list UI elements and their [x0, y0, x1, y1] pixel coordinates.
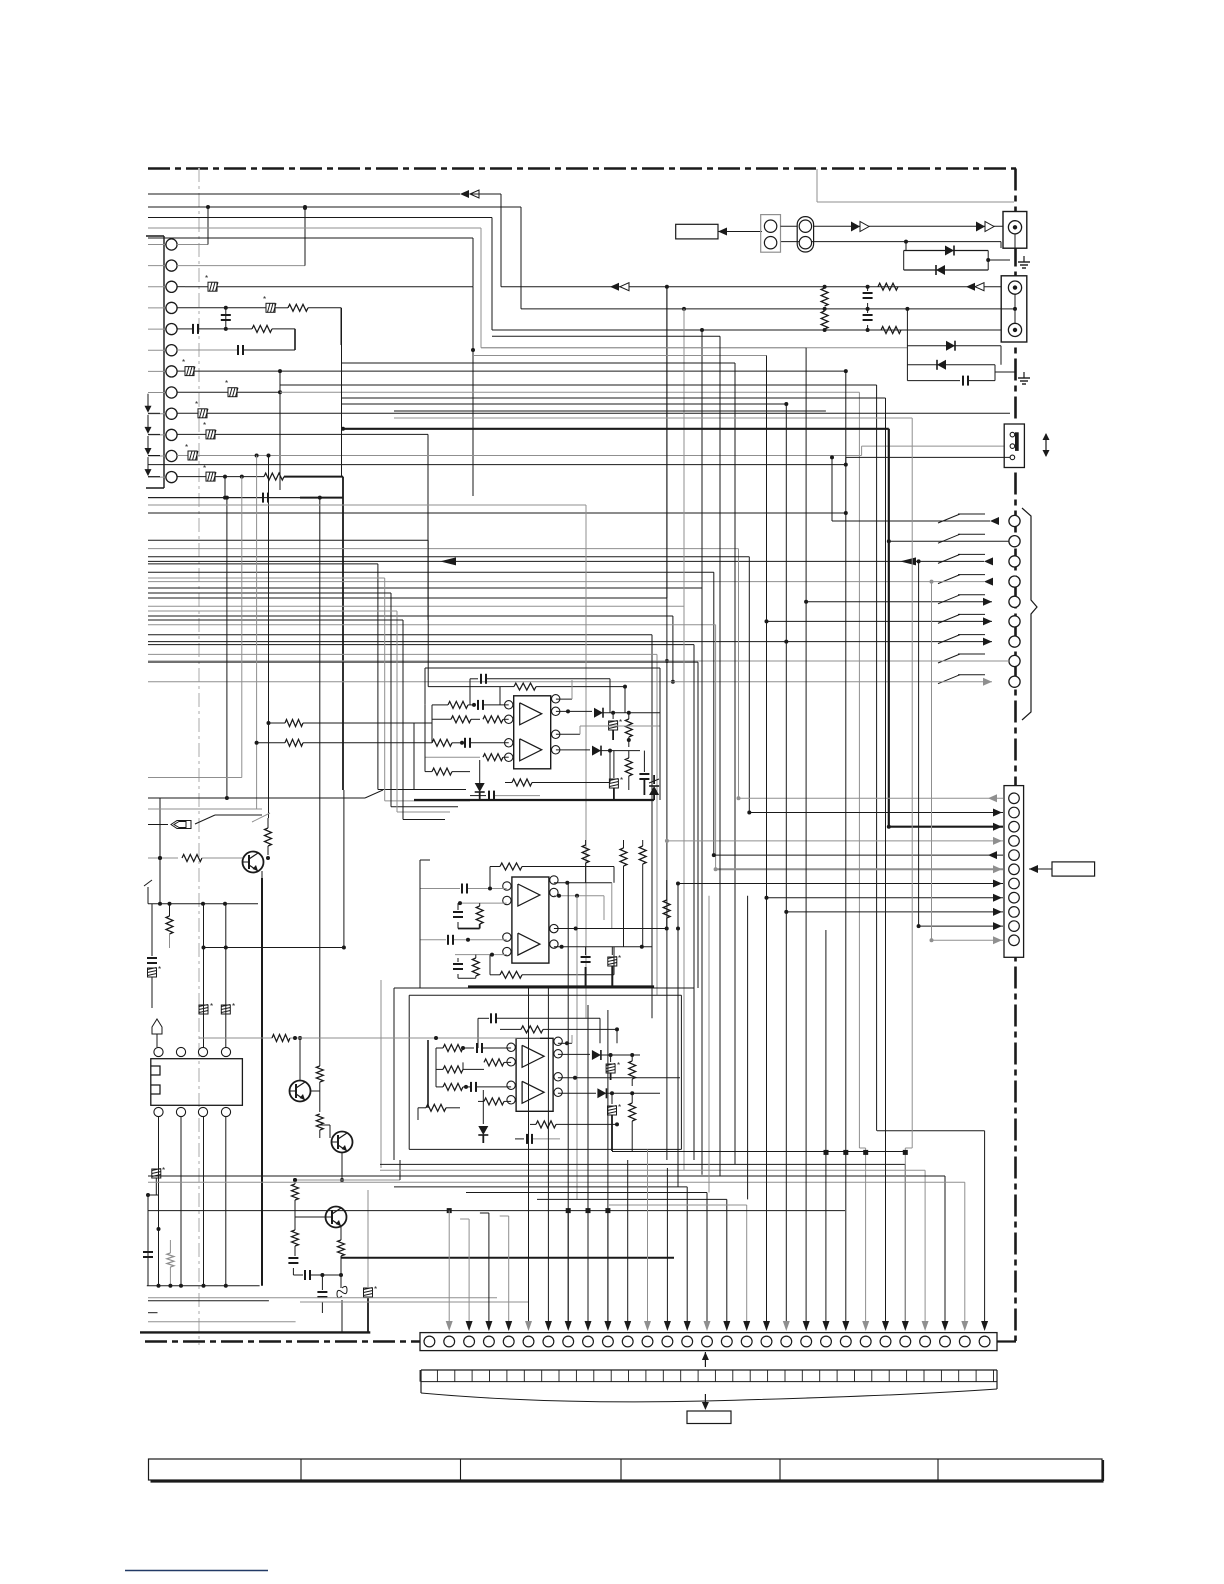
diode D out2 — [556, 746, 640, 756]
connector CN101 (12-pin) — [145, 236, 178, 488]
ferrite FB2 + resistor R + wire — [177, 295, 341, 345]
wire L6 — [280, 385, 877, 1131]
resistor R u2r2 — [620, 840, 627, 947]
resistor R q4b1 — [292, 1178, 299, 1252]
wire block1 bottom bus — [414, 799, 654, 801]
connector sym 2p stadium — [797, 217, 813, 252]
connector sym 2p box — [761, 215, 781, 253]
cap hatched lv — [147, 904, 161, 1008]
connector CN right (11-pin) — [1004, 786, 1024, 958]
wire bottom bus4 — [148, 1297, 497, 1299]
resistor R q1c — [265, 818, 272, 860]
wire sw p7 — [148, 638, 992, 646]
wire band3 l4 — [148, 1182, 965, 1327]
wire bus b0 — [148, 549, 739, 799]
wire sw p9 — [148, 678, 992, 686]
arrow up center — [702, 1352, 709, 1367]
wire block1 left rails — [414, 705, 432, 790]
wire u3 loop2 — [394, 988, 694, 1160]
svg-text:*: * — [203, 421, 206, 430]
resistor R in3 — [425, 738, 509, 748]
wire band3 l1 — [380, 1164, 905, 1327]
wire u2 out2 — [554, 894, 604, 1200]
wire steps s3 — [537, 1199, 727, 1327]
wire q2col — [298, 1036, 302, 1081]
resistor R u2r3 — [639, 840, 646, 947]
wire op1 feed r3 — [148, 578, 470, 801]
svg-text:*: * — [210, 1002, 213, 1011]
wire bus b4 — [148, 287, 667, 598]
wire staircase w3 — [148, 218, 1001, 331]
wire sw p4 — [148, 578, 993, 586]
wire L3 — [473, 355, 767, 357]
capacitor C o1 — [639, 751, 649, 795]
label box bottom — [687, 1411, 731, 1424]
wire steps s1 — [394, 1187, 687, 1327]
svg-text:*: * — [620, 776, 623, 785]
wire bus b513 — [148, 511, 848, 515]
svg-text:*: * — [162, 1166, 165, 1175]
cap q4c — [317, 1273, 327, 1313]
wire u3 loop1 — [409, 995, 681, 1149]
resistor R u3o2 — [629, 1093, 636, 1151]
wire jack link — [781, 242, 1002, 248]
wire longv C — [700, 328, 704, 1175]
resistor R fb2 bot — [490, 947, 614, 979]
connector arrow sym — [148, 815, 262, 829]
resistor R series2 — [881, 327, 901, 334]
coil q4 — [337, 1257, 347, 1332]
wire longv e2 — [708, 896, 710, 1193]
svg-text:*: * — [182, 358, 185, 367]
resistor R o1 — [625, 713, 632, 747]
capacitor C fb1 — [470, 674, 610, 713]
ferrite FB1 + wire — [177, 274, 473, 496]
wire longv e1 — [676, 884, 680, 1187]
capacitor C fb3 — [478, 1013, 600, 1048]
wire longv p17 — [766, 356, 768, 1328]
op-amp U2 — [503, 876, 558, 963]
resistor R bias1 — [425, 768, 470, 775]
junction — [303, 205, 307, 209]
diode pair loop upper — [904, 240, 1010, 275]
svg-text:*: * — [374, 1285, 377, 1294]
resistor R lw — [167, 1240, 174, 1288]
wire bus extra1 — [148, 497, 343, 499]
wire bus b6 — [148, 616, 673, 682]
resistor R fb3 — [500, 1026, 619, 1043]
wire steps s4 — [609, 1205, 747, 1327]
IC U4 body — [151, 1059, 243, 1106]
switch SW1 — [1004, 424, 1024, 468]
RCA jack J1 — [1003, 212, 1027, 249]
svg-text:*: * — [618, 954, 621, 963]
wires into right connector — [665, 559, 1003, 944]
wire u3 loop3 — [380, 980, 382, 1168]
wire bottom bus3 — [148, 1300, 269, 1302]
capacitor C + resistor + wire — [177, 324, 295, 345]
wire op1 feed r6 — [148, 620, 445, 820]
ferrite lw — [152, 1166, 165, 1195]
wire u2 out1 — [554, 881, 612, 929]
wire bus extra2 — [148, 505, 586, 1018]
cap q4 — [288, 1246, 298, 1275]
wire left rail h — [148, 902, 258, 906]
wire bus b2 — [148, 572, 714, 855]
capacitor C u3b — [515, 1134, 560, 1144]
wire u3 out2 — [558, 1076, 680, 1080]
tap squares — [447, 1208, 611, 1327]
capacitor C + wire — [221, 308, 231, 331]
wire u3 left rails — [418, 1040, 436, 1120]
wire u2 loop — [420, 860, 430, 988]
capacitor C pair — [863, 285, 873, 332]
tap squares right — [824, 1150, 908, 1155]
ferrite FB3 + wire — [177, 358, 848, 490]
ferrite ic1 — [199, 1002, 213, 1014]
wire u2 in2 — [458, 901, 507, 905]
transistor Q4 — [326, 1207, 347, 1228]
wire op1 in2 feed — [267, 720, 415, 727]
switch contact column pins — [938, 514, 1020, 687]
brace — [1022, 508, 1037, 720]
wire sw p1 — [830, 455, 999, 525]
wire sw p3 — [148, 557, 993, 565]
svg-text:*: * — [205, 274, 208, 283]
wire band3 top — [877, 1131, 985, 1327]
diode D out1 — [556, 708, 660, 718]
wire longv v885 — [885, 398, 887, 1327]
wire L10 — [394, 410, 826, 412]
wire u3 out1 — [558, 1035, 572, 1045]
IC U4 pins bottom — [154, 1107, 231, 1116]
resistor R u2r4 — [663, 880, 670, 929]
wire bus b8 — [148, 635, 652, 1019]
svg-text:*: * — [158, 965, 161, 974]
resistor R fb low1 — [505, 751, 610, 786]
wire longv A — [665, 285, 669, 1160]
wire 160v — [158, 798, 162, 906]
ribbon cable — [420, 1370, 997, 1402]
wire bottom bus1 — [341, 1257, 674, 1259]
wire op1 feed r5 — [148, 611, 450, 812]
wire vdrop e — [318, 496, 322, 1060]
diode D u3o2 — [558, 1088, 660, 1098]
svg-text:*: * — [195, 400, 198, 409]
wire u2 in4 — [455, 953, 507, 957]
board boundary dash-dot right — [1014, 169, 1017, 1342]
ferrite cap FCu31 — [606, 1053, 634, 1080]
wire sw p2 — [887, 539, 1009, 543]
wire y809 — [148, 808, 262, 810]
ferrite FB8 + resistor + wire — [148, 464, 344, 948]
IC U4 pin wires — [159, 1117, 226, 1286]
wire arrow to label — [718, 228, 762, 236]
resistor R in34 — [418, 1098, 511, 1111]
diode arrow lv — [152, 1019, 162, 1047]
wire bus b11 — [148, 662, 698, 988]
wire q2 — [311, 1060, 324, 1138]
op-amp U3 — [507, 1037, 562, 1111]
resistor R mid1038 — [199, 1035, 540, 1042]
resistor R lv — [166, 902, 173, 948]
svg-text:*: * — [263, 295, 266, 304]
cap lw — [143, 1252, 153, 1257]
wire bottom bus6 — [148, 1321, 296, 1323]
wire L11 — [394, 417, 912, 419]
wire conn right link — [997, 1341, 1014, 1343]
diode D v1 — [475, 760, 485, 800]
ferrite FB4 + wire — [177, 379, 866, 1327]
wire bus b1 — [148, 557, 749, 813]
wire u2 out4 — [554, 945, 652, 949]
wire L4 — [342, 363, 736, 1164]
wire top grey drop — [817, 169, 1014, 202]
svg-text:*: * — [203, 464, 206, 473]
wire vdrop d — [267, 454, 271, 819]
capacitor C b1 — [470, 791, 540, 801]
resistor R in32 — [436, 1059, 511, 1073]
svg-text:*: * — [232, 1002, 235, 1011]
wire bus b7 — [148, 625, 716, 870]
capacitor C u2r — [581, 947, 591, 987]
label box right — [1029, 862, 1095, 876]
wire sw p8 — [148, 659, 1009, 663]
wire bus b9 — [148, 645, 694, 988]
resistor R q4e — [338, 1227, 345, 1260]
ferrite cap FC u2 — [608, 947, 621, 987]
resistor R in1 — [432, 700, 509, 710]
resistor R fb2 top — [490, 863, 614, 889]
wire longv p20 — [825, 930, 827, 1327]
contact slash2 — [252, 813, 270, 822]
resistor R u2r1 — [582, 840, 589, 883]
resistor R series — [878, 283, 898, 290]
wire y798 — [148, 790, 383, 798]
ground G2 — [1001, 346, 1030, 384]
wire lw2 — [146, 1193, 161, 1286]
wire bus b5 — [148, 309, 684, 606]
left cut sym — [144, 880, 152, 904]
wire — [177, 206, 307, 266]
resistor R in4 — [425, 754, 509, 761]
diode sym pair 2 — [976, 222, 994, 232]
wire longv e4 — [719, 336, 721, 1176]
updown arrow — [1043, 433, 1050, 457]
wire longv v912 — [905, 418, 912, 1327]
arrow down to label — [702, 1394, 709, 1410]
wire sw p5 — [804, 598, 992, 606]
wire sw feed blk — [148, 457, 1010, 466]
resistor R + junctions — [821, 285, 828, 332]
wire op1 feed r2 — [148, 564, 466, 790]
wire sw p6 — [765, 617, 993, 625]
wire vdrop b — [148, 475, 244, 778]
cap q4b — [293, 1270, 341, 1280]
ferrite cap FC2 — [609, 751, 623, 800]
diode D u3o1 — [558, 1050, 640, 1060]
wire staircase w4 — [148, 228, 907, 348]
svg-text:*: * — [185, 443, 188, 452]
ferrite FB7 + wire — [148, 443, 1010, 460]
wire q4 top — [293, 1160, 400, 1182]
wire — [223, 477, 227, 500]
wire L2 — [492, 335, 720, 337]
wire longv p19 — [805, 348, 807, 1327]
wire vdrop a — [225, 496, 229, 800]
op-amp U1 — [505, 695, 560, 769]
wire longv D — [341, 308, 343, 477]
board boundary dash-dot bottom-left — [145, 1340, 420, 1343]
wire thick mid — [341, 427, 889, 827]
footer rule — [125, 1570, 268, 1572]
wire bus b3 — [148, 330, 702, 588]
resistor R o2 — [625, 751, 632, 790]
svg-text:*: * — [225, 379, 228, 388]
resistor R in2 — [432, 716, 509, 723]
ferrite FB5 + wire — [148, 400, 1010, 418]
wire block1 out1 — [556, 680, 572, 699]
fold dash-dot line grey vertical — [198, 168, 200, 1345]
wire longv B — [682, 307, 686, 1170]
capacitor C + wire — [177, 329, 475, 355]
resistor R in31 — [436, 1043, 511, 1053]
connector CN bottom (29-pin) — [420, 1333, 997, 1351]
board boundary dash-dot bottom-right stub — [997, 1340, 1016, 1342]
wire block1 out2 — [556, 726, 660, 734]
wire op1 feed r1 — [148, 540, 500, 686]
RC pair u2b — [453, 955, 479, 979]
wire — [177, 205, 210, 245]
capacitor C in2a — [420, 884, 507, 894]
wire q3 — [320, 1125, 330, 1138]
wire longv e3 — [747, 896, 749, 1200]
wire steps s2 — [466, 1193, 707, 1328]
wire L1 — [481, 347, 806, 349]
wire ic rails — [202, 904, 346, 1047]
diode pair loop lower — [905, 307, 1016, 386]
resistor R fb1 — [500, 683, 627, 713]
wire steps s5 — [148, 1210, 845, 1212]
wire longv p18 — [784, 402, 788, 1327]
wire op1 in3 feed — [255, 739, 425, 746]
wire staircase w5 — [148, 238, 473, 287]
wire u2 out3 — [554, 927, 669, 931]
IC U4 pins top — [154, 1047, 231, 1056]
wire staircase w2 — [148, 207, 1001, 309]
wire tap feed — [612, 1151, 905, 1153]
resistor R u3o1 — [629, 1055, 636, 1086]
ferrite q4 — [364, 1190, 378, 1332]
wire longv v845 — [845, 371, 847, 1327]
resistor R u3b — [530, 1121, 619, 1128]
wire q4 base — [295, 1216, 326, 1218]
wires arrows into bottom connector — [446, 883, 988, 1331]
RC pair u2a — [453, 903, 483, 928]
diode D u3 — [478, 1090, 488, 1143]
ferrite FB6 + wire — [148, 421, 428, 620]
RCA jack J2 double — [1001, 276, 1027, 342]
capacitor C in2b — [420, 935, 507, 945]
resistor R in33 — [436, 1082, 511, 1092]
wire bus b10 — [148, 654, 657, 995]
wire bottom bus2 — [147, 1284, 260, 1288]
wire block1 loop — [425, 668, 660, 800]
wire — [781, 225, 1004, 227]
board boundary dash-dot top — [148, 167, 1016, 170]
svg-text:*: * — [618, 1103, 621, 1112]
table revision — [149, 1459, 1104, 1482]
wire staircase w1 — [148, 190, 1001, 291]
wire L8 — [342, 397, 886, 399]
wire q1 down — [261, 871, 263, 1286]
diode sym pair 1 — [851, 222, 869, 232]
wire op1 feed r4 — [148, 593, 458, 807]
wire bottom bus5 — [148, 1302, 529, 1313]
label box — [676, 224, 718, 239]
resistor R q1b — [148, 855, 243, 862]
zener D z1 — [649, 775, 659, 800]
ferrite ic2 — [221, 1002, 235, 1014]
capacitor C + wire — [148, 493, 343, 503]
wire vdrop c — [255, 454, 259, 810]
transistor Q2 — [290, 1081, 311, 1102]
ground G1 — [1018, 256, 1030, 268]
transistor Q1 — [243, 852, 264, 873]
svg-text:*: * — [617, 1061, 620, 1070]
wire u2 bottom bus — [468, 985, 654, 987]
transistor Q3 — [332, 1132, 353, 1183]
wire band3 l2 — [380, 1170, 925, 1327]
ferrite cap FC1 — [609, 713, 623, 740]
wire L9 — [342, 403, 787, 405]
wire bottom bus7 — [140, 1331, 370, 1333]
ferrite cap FCu32 — [608, 1093, 622, 1151]
wire band3 l3 — [148, 1176, 945, 1327]
